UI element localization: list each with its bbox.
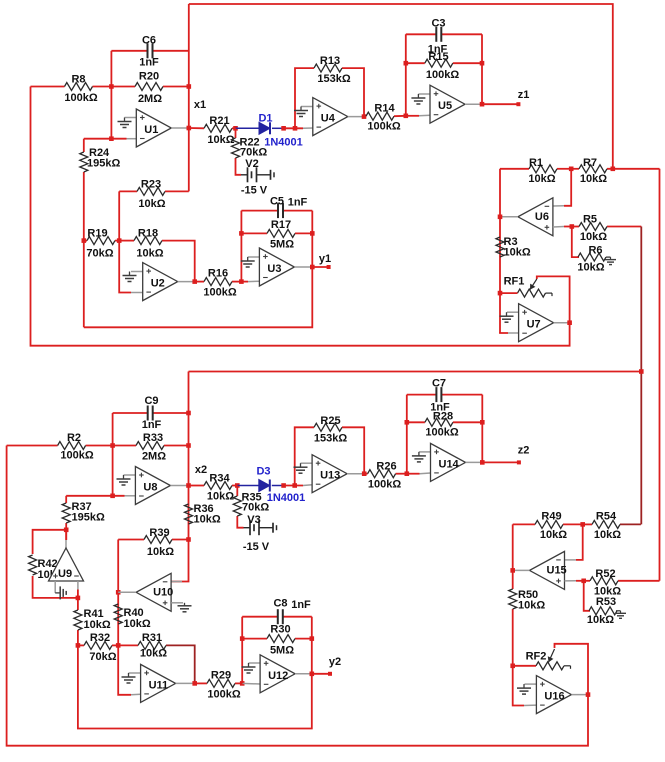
- op-amp U5: [430, 85, 465, 123]
- op-amp U3: [259, 248, 294, 286]
- wire U16 inverting input: [524, 704, 536, 706]
- svg-text:1N4001: 1N4001: [267, 492, 306, 504]
- resistor R54: [583, 523, 592, 525]
- op-amp U12: [260, 655, 295, 693]
- capacitor C5: [241, 210, 278, 212]
- wire U4 output: [348, 116, 364, 118]
- op-amp U8: [135, 467, 170, 505]
- op-amp U15: [530, 551, 565, 589]
- resistor R40: [114, 604, 122, 624]
- svg-text:R29: R29: [211, 670, 231, 682]
- wire x2 top line of second system: [189, 371, 642, 373]
- svg-text:R26: R26: [376, 461, 396, 473]
- svg-text:V2: V2: [245, 158, 258, 170]
- ground U4 + input: [301, 106, 313, 108]
- svg-text:10kΩ: 10kΩ: [504, 247, 531, 259]
- wire U8 output riser x=188.5: [171, 372, 188, 582]
- svg-text:C3: C3: [431, 18, 445, 30]
- svg-text:R34: R34: [209, 473, 230, 485]
- svg-text:-15 V: -15 V: [243, 541, 270, 553]
- wire C7/R28 left vertical: [406, 395, 408, 474]
- wire U6 + input to R5: [553, 226, 564, 229]
- svg-text:U8: U8: [143, 482, 157, 494]
- resistor R52: [576, 580, 590, 582]
- svg-text:R18: R18: [138, 228, 158, 240]
- svg-text:R33: R33: [143, 432, 163, 444]
- wire R14 to U5 inverting input: [406, 115, 419, 117]
- resistor R49: [513, 523, 535, 525]
- resistor R32: [78, 644, 84, 646]
- wire U9 - input: [77, 590, 79, 598]
- svg-text:R15: R15: [428, 51, 448, 63]
- wire U1 output riser x=188.8: [188, 4, 190, 191]
- wire U6 output: [500, 216, 518, 218]
- op-amp U13: [312, 455, 347, 493]
- svg-text:R5: R5: [583, 214, 597, 226]
- svg-text:R2: R2: [67, 432, 81, 444]
- op-amp U7: [519, 304, 554, 342]
- svg-text:10kΩ: 10kΩ: [124, 618, 151, 630]
- ground U9 + input: [54, 581, 56, 593]
- wire R49/R54 node to U15 inverting input: [576, 524, 583, 560]
- resistor R13 feedback loop: [295, 68, 314, 128]
- svg-text:U14: U14: [439, 458, 460, 470]
- wire R5 branch down to R6: [572, 227, 579, 258]
- svg-text:U5: U5: [438, 100, 452, 112]
- resistor R1: [500, 168, 529, 170]
- svg-text:y2: y2: [329, 656, 341, 668]
- wire U7 output to outer loop: [554, 322, 570, 324]
- wire outer loop from U7 to R8: [31, 87, 570, 346]
- svg-text:100kΩ: 100kΩ: [207, 689, 240, 701]
- resistor R24: [83, 139, 85, 152]
- wire U3 output node y1: [294, 266, 312, 268]
- ground U1 + input: [125, 117, 137, 119]
- svg-text:70kΩ: 70kΩ: [89, 651, 116, 663]
- capacitor C9: [113, 412, 148, 414]
- svg-text:R20: R20: [139, 71, 159, 83]
- ground R53: [620, 611, 622, 614]
- svg-text:1N4001: 1N4001: [264, 137, 303, 149]
- svg-text:10kΩ: 10kΩ: [138, 198, 165, 210]
- wire x2 coupling vertical (dark): [640, 227, 642, 525]
- svg-text:100kΩ: 100kΩ: [203, 287, 236, 299]
- svg-text:U10: U10: [153, 586, 173, 598]
- svg-text:U9: U9: [58, 568, 72, 580]
- potentiometer RF1: [498, 291, 503, 296]
- svg-text:U2: U2: [151, 278, 165, 290]
- svg-text:C5: C5: [270, 196, 284, 208]
- resistor R37: [65, 496, 67, 503]
- svg-text:10kΩ: 10kΩ: [207, 491, 234, 503]
- wire R7 to R52 right vertical: [659, 169, 661, 581]
- svg-text:U11: U11: [149, 679, 169, 691]
- node junction R20/C6-right: [187, 84, 192, 89]
- svg-text:R6: R6: [588, 245, 602, 257]
- op-amp U9: [49, 548, 84, 581]
- svg-text:R14: R14: [374, 103, 395, 115]
- svg-text:70kΩ: 70kΩ: [86, 248, 113, 260]
- resistor R7: [571, 168, 579, 170]
- svg-text:R39: R39: [149, 527, 169, 539]
- resistor R33: [113, 445, 136, 447]
- op-amp U1: [136, 109, 171, 147]
- wire D3 to U13 inverting input: [284, 485, 303, 487]
- svg-text:R30: R30: [270, 624, 290, 636]
- wire C3/R15 left vertical: [405, 34, 407, 116]
- svg-text:R31: R31: [142, 632, 162, 644]
- svg-text:C6: C6: [142, 35, 156, 47]
- svg-text:C8: C8: [273, 598, 287, 610]
- capacitor C3: [406, 33, 437, 35]
- svg-text:U13: U13: [320, 470, 340, 482]
- svg-text:100kΩ: 100kΩ: [368, 479, 401, 491]
- svg-text:R13: R13: [320, 55, 340, 67]
- svg-text:195kΩ: 195kΩ: [87, 158, 120, 170]
- capacitor C8: [242, 616, 278, 618]
- svg-text:y1: y1: [319, 253, 331, 265]
- svg-text:x1: x1: [194, 99, 206, 111]
- diode D1 1N4001: [236, 127, 260, 129]
- ground U10 + input: [171, 602, 183, 604]
- resistor R28: [407, 421, 425, 423]
- wire C9 left vertical x=112.6: [112, 413, 114, 496]
- wire R1/R7 node to U6 inverting input: [564, 169, 571, 206]
- svg-text:100kΩ: 100kΩ: [60, 450, 93, 462]
- svg-text:U12: U12: [268, 670, 288, 682]
- resistor R22: [235, 128, 237, 138]
- ground U12 + input: [249, 662, 261, 664]
- wire C6 left vertical x=111.4: [110, 51, 112, 139]
- wire R42 loop: [33, 530, 67, 554]
- ground U5 + input: [418, 93, 430, 95]
- wire U5 output node z1: [465, 103, 482, 105]
- svg-text:R53: R53: [596, 596, 616, 608]
- ground U3 + input: [248, 256, 260, 258]
- svg-text:R19: R19: [87, 228, 107, 240]
- resistor R34: [189, 485, 205, 487]
- svg-text:1nF: 1nF: [142, 419, 162, 431]
- resistor R15: [406, 62, 425, 64]
- svg-text:10kΩ: 10kΩ: [540, 529, 567, 541]
- svg-text:153kΩ: 153kΩ: [314, 433, 347, 445]
- svg-text:10kΩ: 10kΩ: [594, 529, 621, 541]
- wire lower feedback of y1 loop: [84, 211, 312, 328]
- svg-text:100kΩ: 100kΩ: [425, 427, 458, 439]
- svg-text:5MΩ: 5MΩ: [270, 645, 294, 657]
- wire U3 inverting input: [241, 281, 248, 283]
- resistor R23: [119, 190, 137, 192]
- svg-text:100kΩ: 100kΩ: [367, 121, 400, 133]
- wire U1 output: [171, 127, 189, 129]
- potentiometer RF2: [510, 664, 515, 669]
- svg-text:10kΩ: 10kΩ: [577, 262, 604, 274]
- op-amp U11: [141, 664, 176, 702]
- wire U15 + input to R52: [565, 580, 577, 582]
- svg-text:U1: U1: [144, 124, 158, 136]
- wire C5/R17 left vertical: [240, 211, 242, 282]
- resistor R50: [512, 524, 514, 589]
- resistor R18: [119, 240, 134, 242]
- svg-text:R8: R8: [71, 74, 85, 86]
- svg-text:70kΩ: 70kΩ: [240, 147, 267, 159]
- resistor R39: [118, 539, 144, 541]
- svg-text:RF1: RF1: [504, 276, 525, 288]
- svg-text:D1: D1: [258, 113, 272, 125]
- svg-text:100kΩ: 100kΩ: [426, 69, 459, 81]
- voltage source V2 -15V: [241, 174, 248, 176]
- ground U11 + input: [129, 672, 141, 674]
- svg-text:R54: R54: [596, 511, 617, 523]
- wire C8/R30 right vertical: [311, 617, 313, 674]
- svg-text:10kΩ: 10kΩ: [194, 514, 221, 526]
- capacitor C6: [111, 50, 147, 52]
- svg-text:195kΩ: 195kΩ: [72, 512, 105, 524]
- resistor R31: [118, 644, 138, 646]
- resistor R14: [364, 115, 366, 117]
- svg-text:R28: R28: [433, 411, 453, 423]
- ground U13 + input: [301, 462, 313, 464]
- resistor R19: [84, 240, 87, 242]
- svg-text:x2: x2: [195, 464, 207, 476]
- svg-text:R25: R25: [320, 415, 340, 427]
- op-amp U14: [431, 443, 466, 481]
- svg-text:U16: U16: [544, 691, 564, 703]
- svg-text:153kΩ: 153kΩ: [317, 73, 350, 85]
- ground U8 + input: [124, 474, 136, 476]
- ground U7 + input: [507, 311, 519, 313]
- op-amp U6: [518, 198, 553, 236]
- resistor R17: [241, 232, 267, 234]
- svg-text:1nF: 1nF: [139, 57, 159, 69]
- diode D3 1N4001: [237, 485, 258, 487]
- op-amp U16: [536, 676, 571, 714]
- wire U1 inverting input line: [84, 138, 127, 140]
- wire U16 output to outer loop: [571, 694, 588, 696]
- svg-text:2MΩ: 2MΩ: [138, 93, 162, 105]
- svg-text:U15: U15: [547, 564, 567, 576]
- wire R29 to U12 inverting input: [242, 682, 260, 685]
- wire U13 output: [347, 473, 364, 475]
- wire U10 output riser: [118, 540, 131, 695]
- svg-text:R16: R16: [208, 268, 228, 280]
- wire R52 branch down to R53: [584, 581, 590, 611]
- svg-text:U4: U4: [321, 113, 336, 125]
- resistor R36: [185, 504, 193, 524]
- svg-text:U3: U3: [267, 263, 281, 275]
- svg-text:R52: R52: [595, 568, 615, 580]
- svg-text:R7: R7: [583, 157, 597, 169]
- capacitor C7: [407, 394, 437, 396]
- wire C3/R15 right vertical: [481, 34, 483, 104]
- svg-text:10kΩ: 10kΩ: [528, 173, 555, 185]
- resistor R25 feedback loop: [295, 427, 314, 485]
- svg-text:R32: R32: [90, 632, 110, 644]
- resistor R53: [616, 610, 621, 612]
- svg-text:10kΩ: 10kΩ: [140, 648, 167, 660]
- resistor R42: [29, 555, 37, 575]
- wire U7 inverting input: [500, 332, 508, 333]
- resistor R6: [606, 256, 611, 258]
- svg-text:1nF: 1nF: [291, 599, 311, 611]
- svg-text:10kΩ: 10kΩ: [580, 231, 607, 243]
- resistor R2: [7, 445, 58, 447]
- op-amp U2: [143, 263, 178, 301]
- wire inner bottom loop of second system: [78, 645, 312, 728]
- svg-text:1nF: 1nF: [288, 197, 308, 209]
- wire R23 to U2 inverting input: [119, 191, 131, 292]
- wire C7/R28 right vertical: [481, 395, 483, 463]
- svg-text:C9: C9: [144, 395, 158, 407]
- wire R26 to U14 inverting input: [407, 473, 420, 475]
- svg-text:R17: R17: [271, 219, 291, 231]
- svg-text:R49: R49: [541, 511, 561, 523]
- ground U14 + input: [419, 451, 431, 453]
- svg-text:10kΩ: 10kΩ: [84, 619, 111, 631]
- op-amp U10: [136, 573, 171, 611]
- svg-text:70kΩ: 70kΩ: [242, 502, 269, 514]
- wire U12 output node y2: [295, 673, 312, 675]
- svg-text:10kΩ: 10kΩ: [136, 248, 163, 260]
- wire D1 to U4 inverting input: [284, 127, 303, 129]
- wire C8/R30 left vertical: [241, 617, 243, 684]
- svg-text:RF2: RF2: [526, 651, 547, 663]
- svg-text:D3: D3: [256, 466, 270, 478]
- resistor R30: [242, 638, 267, 640]
- wire RF1 left lead: [500, 292, 518, 294]
- resistor R29: [195, 682, 207, 684]
- svg-text:R21: R21: [209, 115, 229, 127]
- resistor R21: [189, 127, 204, 129]
- wire x1 top feedback line: [189, 4, 613, 169]
- wire U8 inverting input line: [66, 495, 124, 497]
- svg-text:100kΩ: 100kΩ: [64, 92, 97, 104]
- ground U2 + input: [131, 271, 143, 273]
- wire U14 output node z2: [466, 461, 483, 463]
- svg-text:2MΩ: 2MΩ: [142, 451, 166, 463]
- resistor R26: [364, 473, 367, 475]
- svg-text:R1: R1: [529, 157, 543, 169]
- svg-text:V3: V3: [247, 514, 260, 526]
- svg-text:z2: z2: [518, 445, 530, 457]
- svg-text:5MΩ: 5MΩ: [270, 239, 294, 251]
- node junction R8/R20/C6-left: [109, 84, 114, 89]
- wire outer loop from U16 to R2: [7, 446, 588, 746]
- op-amp U4: [313, 98, 348, 136]
- resistor R20: [111, 86, 135, 88]
- svg-text:10kΩ: 10kΩ: [147, 546, 174, 558]
- wire U15 output: [513, 569, 530, 571]
- svg-text:10kΩ: 10kΩ: [587, 614, 614, 626]
- svg-text:z1: z1: [518, 89, 530, 101]
- svg-text:R23: R23: [141, 179, 161, 191]
- wire U2 output: [178, 281, 195, 283]
- wire U9 output pin: [65, 530, 67, 540]
- resistor R3: [499, 169, 501, 333]
- wire U11 output: [176, 682, 195, 684]
- svg-text:U7: U7: [527, 319, 541, 331]
- svg-text:10kΩ: 10kΩ: [518, 600, 545, 612]
- svg-text:C7: C7: [432, 378, 446, 390]
- resistor R16: [195, 281, 204, 283]
- svg-text:-15 V: -15 V: [241, 185, 268, 197]
- resistor R41: [77, 598, 79, 610]
- wire U10 output: [118, 591, 136, 593]
- svg-text:U6: U6: [535, 211, 549, 223]
- wire U8 output: [170, 485, 188, 487]
- svg-text:10kΩ: 10kΩ: [580, 173, 607, 185]
- resistor R8: [31, 86, 65, 88]
- ground R6: [610, 257, 612, 260]
- voltage source V3 -15V: [244, 527, 251, 529]
- ground U16 + input: [525, 683, 537, 685]
- resistor R5: [564, 226, 579, 228]
- resistor R35: [236, 486, 238, 497]
